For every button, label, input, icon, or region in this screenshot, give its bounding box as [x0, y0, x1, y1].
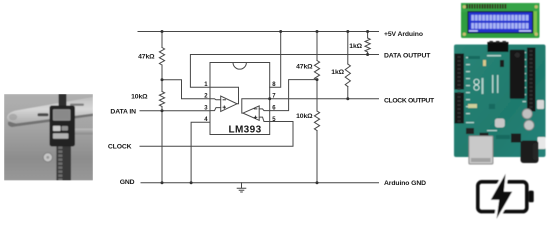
svg-text:DATA OUTPUT: DATA OUTPUT: [384, 52, 431, 59]
svg-text:GND: GND: [120, 179, 135, 186]
svg-text:1kΩ: 1kΩ: [349, 43, 362, 50]
svg-text:LM393: LM393: [228, 124, 261, 135]
svg-text:47kΩ: 47kΩ: [138, 53, 155, 60]
svg-text:CLOCK OUTPUT: CLOCK OUTPUT: [384, 97, 435, 104]
svg-text:10kΩ: 10kΩ: [296, 113, 313, 120]
svg-text:DATA IN: DATA IN: [110, 108, 136, 115]
svg-text:CLOCK: CLOCK: [108, 144, 132, 151]
svg-text:1kΩ: 1kΩ: [331, 69, 344, 76]
svg-text:+5V Arduino: +5V Arduino: [384, 31, 423, 38]
svg-text:10kΩ: 10kΩ: [131, 93, 148, 100]
svg-text:Arduino GND: Arduino GND: [384, 180, 426, 187]
svg-text:47kΩ: 47kΩ: [296, 64, 313, 71]
